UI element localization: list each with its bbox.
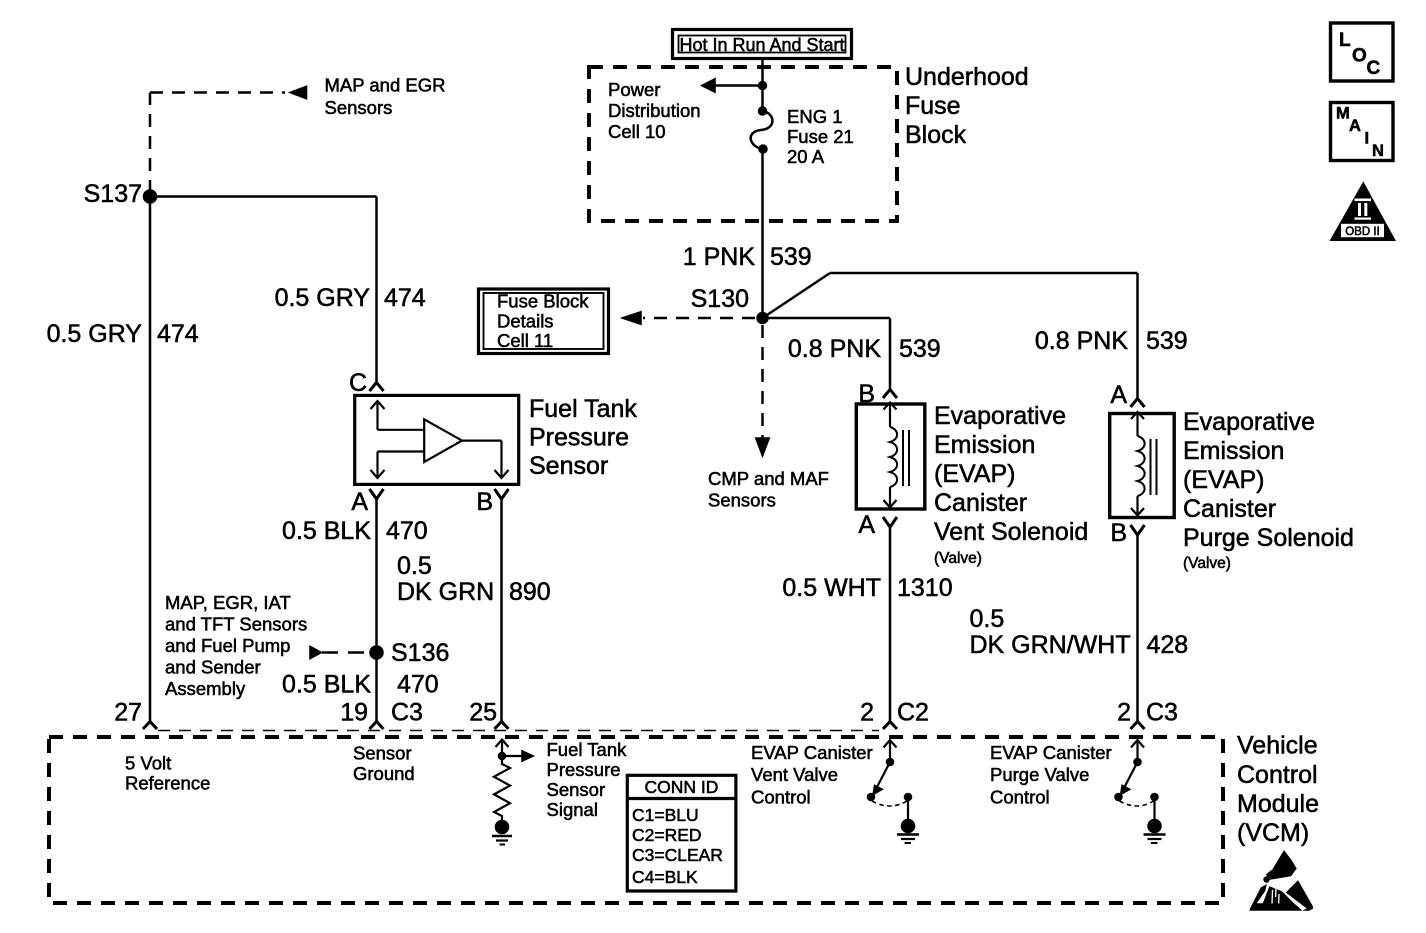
svg-text:474: 474 [384,284,426,312]
svg-text:Power: Power [608,79,660,100]
label Power Distribution Cell 10 [608,79,701,142]
svg-text:(EVAP): (EVAP) [934,460,1016,488]
svg-text:Emission: Emission [934,431,1035,459]
purge solenoid coil winding [1131,412,1145,516]
svg-text:Evaporative: Evaporative [1183,408,1315,436]
connector line C3 thin dashed [158,730,879,732]
svg-text:0.5 GRY: 0.5 GRY [47,320,143,348]
label 0.5 WHT 1310 [782,574,952,602]
svg-text:Canister: Canister [934,489,1027,517]
svg-text:Evaporative: Evaporative [934,402,1066,430]
svg-text:CMP and MAF: CMP and MAF [708,468,829,489]
wire fuse to S130 [761,149,764,318]
op-amp triangle of sensor [424,419,462,462]
terminal 2 C3 [1131,722,1145,730]
svg-text:Canister: Canister [1183,495,1276,523]
node S137 [143,190,157,204]
svg-text:Vent Solenoid: Vent Solenoid [934,518,1088,546]
svg-text:Control: Control [751,787,811,808]
CONN ID header line [627,797,736,800]
svg-text:C1=BLU: C1=BLU [632,805,699,825]
EVAP canister vent solenoid box [856,404,925,509]
wire branch to power distribution [715,84,763,87]
fuse ENG 1 Fuse 21 20 A [751,107,773,154]
ESD sensitivity symbol [1250,851,1314,911]
svg-text:0.8 PNK: 0.8 PNK [1035,327,1128,355]
resistor pull-down in VCM [494,756,510,820]
svg-text:B: B [1110,519,1127,547]
label Evaporative Emission (EVAP) Canister Vent Solenoid [934,402,1088,546]
svg-text:1310: 1310 [897,574,953,602]
svg-text:Block: Block [905,121,967,149]
label 0.5 GRY 474 left [47,320,199,348]
wire dashed S130 to fuse block details [643,317,755,320]
svg-text:S137: S137 [84,180,142,208]
wire dashed S130 to CMP and MAF sensors [761,325,764,438]
svg-text:539: 539 [899,335,941,363]
svg-text:470: 470 [386,517,428,545]
svg-text:MAP and EGR: MAP and EGR [325,75,446,96]
svg-text:Sensors: Sensors [708,490,776,511]
wire S137 down to VCM terminal 27 [149,197,152,722]
label 0.5 DK GRN/WHT 428 [970,605,1189,659]
label Fuel Tank Pressure Sensor [529,395,637,480]
VCM input arrow at 25 [496,740,509,757]
svg-text:N: N [1372,142,1384,160]
label Sensor Ground [353,743,415,785]
svg-text:CONN ID: CONN ID [645,777,719,797]
svg-text:(EVAP): (EVAP) [1183,466,1265,494]
fuse block details box [479,289,609,354]
svg-text:C2: C2 [897,699,929,727]
svg-text:428: 428 [1147,631,1189,659]
label Evaporative Emission (EVAP) Canister Purge Solenoid [1183,408,1354,552]
svg-text:0.8 PNK: 0.8 PNK [788,335,881,363]
svg-text:Emission: Emission [1183,437,1284,465]
purge solenoid core bars [1151,439,1157,495]
svg-text:and Fuel Pump: and Fuel Pump [165,635,290,656]
label 0.8 PNK 539 right [1035,327,1188,355]
terminal 19 C3 [370,722,384,730]
svg-text:MAP, EGR, IAT: MAP, EGR, IAT [165,592,291,613]
svg-text:Ground: Ground [353,763,415,784]
svg-text:Fuse 21: Fuse 21 [787,126,854,147]
arrow from MAP and EGR sensors [289,86,308,100]
svg-text:Pressure: Pressure [547,759,621,780]
label 2 C2 [860,699,929,727]
label 0.5 BLK 470 upper [282,517,428,545]
terminal B of fuel tank pressure sensor [495,489,509,499]
ground of vent driver [897,819,919,843]
svg-text:Reference: Reference [125,773,210,794]
label EVAP Canister Vent Valve Control [751,742,873,808]
svg-text:(Valve): (Valve) [934,550,982,567]
wire S130 to purge solenoid A [763,273,1138,398]
wire purge solenoid B to VCM C3 [1136,534,1139,721]
labels connector colors [632,805,723,887]
svg-text:Signal: Signal [547,799,598,820]
terminal A of vent solenoid [883,517,897,527]
sensor internal ground arrow down [371,452,425,479]
svg-text:Cell 10: Cell 10 [608,121,666,142]
label Underhood Fuse Block [905,63,1029,149]
label CMP and MAF Sensors [708,468,829,511]
svg-text:B: B [476,488,493,516]
svg-text:A: A [1110,381,1127,409]
svg-text:M: M [1336,105,1350,123]
svg-text:C4=BLK: C4=BLK [632,867,698,887]
label 0.5 BLK 470 lower [282,671,439,699]
label ENG 1 Fuse 21 20 A [787,106,854,167]
svg-text:Sensor: Sensor [353,743,412,764]
svg-text:L: L [1339,30,1351,51]
svg-text:Purge Valve: Purge Valve [990,764,1089,785]
svg-text:Hot In Run And Start: Hot In Run And Start [679,35,844,55]
terminal 25 [495,722,509,730]
power feed box "Hot In Run And Start" [673,30,852,59]
svg-text:A: A [858,511,875,539]
wire sensor B to VCM 25 [500,498,503,721]
vent solenoid core bars [903,430,909,486]
svg-text:(VCM): (VCM) [1237,819,1309,847]
vent solenoid coil winding [884,403,898,508]
svg-text:0.5: 0.5 [970,605,1005,633]
svg-text:Purge Solenoid: Purge Solenoid [1183,524,1354,552]
label MAP and EGR Sensors [325,75,446,119]
label 2 C3 [1117,699,1178,727]
label L O C [1339,30,1381,79]
sensor output wire with arrow down [462,441,509,478]
svg-text:EVAP Canister: EVAP Canister [751,742,873,763]
svg-text:Assembly: Assembly [165,678,246,699]
terminal 2 C2 [883,722,897,730]
svg-text:C3: C3 [391,699,423,727]
svg-text:2: 2 [1117,699,1131,727]
wire S137 to sensor C branch [150,197,377,383]
wire S130 to vent solenoid B [763,318,891,389]
svg-text:and Sender: and Sender [165,657,261,678]
label M A I N [1336,105,1384,161]
ground of signal resistor [492,820,512,845]
svg-text:1 PNK: 1 PNK [683,243,756,271]
node S130 [757,312,769,324]
purge valve driver switch in VCM [1115,740,1159,819]
svg-text:539: 539 [1146,327,1188,355]
svg-text:Fuse Block: Fuse Block [497,291,589,312]
wire vent solenoid A to VCM C2 [889,526,892,721]
svg-text:DK GRN/WHT: DK GRN/WHT [970,631,1131,659]
CONN ID table box [627,775,736,891]
terminal A of purge solenoid [1131,399,1145,408]
terminal B of vent solenoid [883,390,897,399]
svg-text:19: 19 [340,699,368,727]
svg-text:ENG 1: ENG 1 [787,106,843,127]
svg-text:Vent Valve: Vent Valve [751,764,838,785]
label Vehicle Control Module (VCM) [1237,732,1319,848]
svg-text:Distribution: Distribution [608,100,701,121]
label Fuel Tank Pressure Sensor Signal [547,739,628,820]
svg-text:20 A: 20 A [787,146,825,167]
svg-text:890: 890 [509,578,551,606]
fuel tank pressure sensor box [355,395,519,484]
label 0.5 GRY 474 right [275,284,426,312]
svg-text:Module: Module [1237,790,1319,818]
svg-text:Cell 11: Cell 11 [497,330,553,351]
svg-text:C3=CLEAR: C3=CLEAR [632,845,723,865]
svg-text:A: A [351,488,368,516]
svg-text:S130: S130 [691,285,749,313]
svg-text:EVAP Canister: EVAP Canister [990,742,1112,763]
svg-text:DK GRN: DK GRN [397,578,494,606]
underhood fuse block dashed box [589,67,897,221]
EVAP canister purge solenoid box [1110,414,1175,518]
svg-text:Details: Details [497,311,554,332]
LOC reference box [1331,23,1394,81]
svg-text:Underhood: Underhood [905,63,1029,91]
svg-text:Fuse: Fuse [905,92,961,120]
arrow from MAP EGR IAT assembly [310,646,323,660]
svg-text:Sensor: Sensor [547,779,606,800]
MAIN reference box [1331,103,1394,161]
svg-text:5 Volt: 5 Volt [125,753,171,774]
svg-text:O: O [1352,46,1367,67]
svg-text:C2=RED: C2=RED [632,825,702,845]
terminal B of purge solenoid [1131,525,1145,535]
svg-text:Fuel Tank: Fuel Tank [529,395,637,423]
wire hot feed to fuse [761,59,764,112]
svg-text:474: 474 [157,320,199,348]
label 5 Volt Reference [125,753,210,794]
OBD II triangle symbol [1330,182,1396,241]
svg-text:Sensor: Sensor [529,452,608,480]
wire dashed S137 to MAP and EGR sensors [150,93,285,194]
sensor internal supply arrow up [371,401,425,430]
svg-text:539: 539 [770,243,812,271]
ground of purge driver [1144,819,1166,843]
svg-text:0.5 BLK: 0.5 BLK [282,517,371,545]
node S136 [370,646,384,660]
label 0.5 DK GRN 890 [397,552,551,606]
node at signal branch [498,752,506,760]
svg-text:0.5 WHT: 0.5 WHT [782,574,881,602]
svg-text:A: A [1349,117,1361,135]
svg-text:0.5 GRY: 0.5 GRY [275,284,371,312]
svg-text:C3: C3 [1146,699,1178,727]
svg-text:(Valve): (Valve) [1183,555,1231,572]
label Fuse Block Details Cell 11 [497,291,589,352]
svg-text:2: 2 [860,699,874,727]
svg-text:Pressure: Pressure [529,424,629,452]
arrow to CMP and MAF sensors [755,438,770,458]
svg-text:470: 470 [397,671,439,699]
svg-text:Fuel Tank: Fuel Tank [547,739,628,760]
label 19 C3 [340,699,423,727]
svg-text:and TFT Sensors: and TFT Sensors [165,614,307,635]
arrow signal to right [502,750,535,762]
svg-text:I: I [1365,130,1370,148]
svg-text:C: C [349,369,367,397]
wire sensor A to S136 to VCM 19 [375,498,378,721]
svg-text:OBD II: OBD II [1345,226,1380,238]
svg-text:25: 25 [469,699,497,727]
label 0.8 PNK 539 left [788,335,941,363]
vehicle control module dashed box [49,737,1223,903]
terminal C of fuel tank pressure sensor [370,383,384,392]
label MAP, EGR, IAT and TFT Sensors and Fuel Pump and Sender Assembly [165,592,307,699]
vent valve driver switch in VCM [867,740,912,819]
arrow to power distribution [701,78,716,93]
svg-text:Vehicle: Vehicle [1237,732,1318,760]
svg-text:Sensors: Sensors [325,97,393,118]
label EVAP Canister Purge Valve Control [990,742,1112,808]
svg-text:0.5 BLK: 0.5 BLK [282,671,371,699]
terminal 27 [143,722,157,730]
svg-text:27: 27 [114,699,142,727]
svg-text:S136: S136 [391,639,449,667]
svg-text:Control: Control [990,787,1050,808]
svg-text:Control: Control [1237,761,1318,789]
terminal A of fuel tank pressure sensor [370,489,384,499]
svg-text:C: C [1367,58,1381,79]
svg-text:0.5: 0.5 [397,552,432,580]
label 1 PNK 539 [683,243,812,271]
node power distribution branch [758,81,767,90]
wire dashed stub to S136 [322,651,364,654]
arrow to fuse block details [621,311,642,325]
